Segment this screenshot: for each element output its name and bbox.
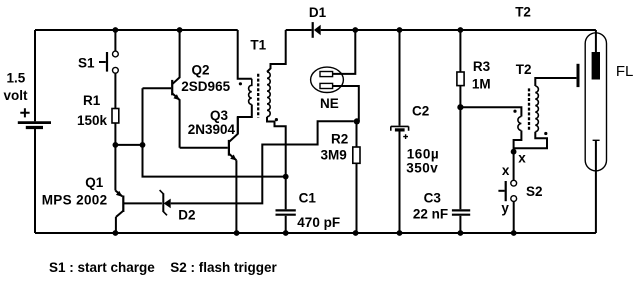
svg-text:T2: T2: [515, 4, 531, 19]
svg-text:D1: D1: [309, 5, 327, 20]
capacitor C1 470 pF: [276, 177, 341, 233]
svg-text:350v: 350v: [406, 161, 438, 176]
node junction Q2 collector top: [177, 27, 183, 33]
svg-text:R3: R3: [473, 59, 491, 74]
wire R3 node to T2 primary: [460, 107, 521, 113]
wire Q2 base vertical: [142, 88, 144, 145]
resistor R2 3M9: [321, 121, 361, 233]
svg-text:2SD965: 2SD965: [181, 79, 230, 94]
svg-text:NE: NE: [320, 96, 339, 111]
svg-text:Q3: Q3: [210, 108, 229, 123]
svg-text:470 pF: 470 pF: [297, 215, 340, 230]
node junction C2 bottom: [397, 230, 403, 236]
node junction Q3 emitter bottom: [234, 230, 240, 236]
svg-text:S1: S1: [78, 55, 95, 70]
zener diode D2: [160, 190, 196, 223]
diode D1: [309, 5, 596, 38]
svg-text:160µ: 160µ: [407, 146, 439, 161]
capacitor C3 22 nF: [413, 190, 470, 233]
svg-text:Q1: Q1: [85, 175, 104, 190]
node junction C3 bottom: [458, 230, 464, 236]
switch S2 flash trigger: [498, 152, 542, 233]
node junction C1 top: [283, 174, 289, 180]
svg-text:22 nF: 22 nF: [413, 207, 448, 222]
node junction R1 bottom: [113, 142, 119, 148]
transistor Q1 MPS 2002: [42, 145, 162, 233]
svg-text:FL: FL: [616, 63, 634, 80]
svg-text:3M9: 3M9: [321, 148, 347, 163]
svg-text:1M: 1M: [472, 77, 491, 92]
node junction NE top: [352, 27, 358, 33]
wire top rail left: [35, 29, 238, 31]
svg-text:S1 : start charge: S1 : start charge: [49, 260, 155, 275]
transistor Q2 2SD965: [143, 30, 231, 148]
switch S1 start charge: [78, 30, 118, 109]
trigger electrode: [577, 64, 580, 87]
node junction R2 bottom: [353, 230, 359, 236]
neon lamp NE: [311, 30, 359, 121]
transformer T2 core: [528, 88, 530, 130]
svg-text:x: x: [502, 163, 510, 178]
wire bottom rail: [35, 232, 596, 234]
battery B1 1.5 volt: [4, 30, 52, 233]
svg-text:C3: C3: [424, 190, 442, 205]
svg-text:Q2: Q2: [192, 63, 210, 78]
resistor R3 1M: [457, 30, 491, 209]
node junction S1 top: [113, 27, 119, 33]
wire node to C1 top: [143, 145, 286, 177]
node junction C1 bottom: [283, 230, 289, 236]
svg-text:C2: C2: [412, 103, 429, 118]
wire D2 to feedback node: [171, 121, 354, 203]
node junction R2 top: [354, 118, 360, 124]
svg-text:2N3904: 2N3904: [188, 122, 236, 137]
node junction Q2 base column: [140, 142, 146, 148]
svg-text:MPS 2002: MPS 2002: [42, 192, 108, 207]
node junction Q1 emitter bottom: [113, 230, 119, 236]
transformer T1 primary winding: [238, 30, 267, 134]
transformer T2 primary winding: [513, 62, 531, 153]
resistor R1 150k: [77, 93, 119, 143]
svg-text:C1: C1: [299, 191, 317, 206]
svg-text:D2: D2: [178, 208, 195, 223]
svg-text:volt: volt: [4, 88, 29, 103]
svg-text:T1: T1: [250, 37, 266, 52]
svg-text:R1: R1: [83, 93, 101, 108]
svg-text:1.5: 1.5: [7, 71, 26, 86]
node junction T2 primary top: [457, 104, 463, 110]
svg-text:y: y: [501, 200, 509, 215]
svg-text:R2: R2: [331, 132, 348, 147]
node junction R3 top: [458, 27, 464, 33]
node junction C2 top: [397, 27, 403, 33]
svg-text:T2: T2: [516, 62, 532, 77]
svg-text:150k: 150k: [77, 113, 108, 128]
svg-text:x: x: [518, 150, 526, 165]
capacitor C2 160u 350v: [391, 30, 439, 233]
node junction S2 x: [511, 149, 517, 155]
flash tube FL: [585, 30, 633, 233]
wire R1 bottom to Q2 base node: [115, 144, 142, 146]
svg-text:S2 : flash trigger: S2 : flash trigger: [170, 260, 277, 275]
transformer T1 secondary winding: [267, 30, 286, 177]
transistor Q3 2N3904: [180, 108, 238, 233]
transformer T2 secondary winding: [514, 78, 577, 148]
svg-text:S2: S2: [526, 184, 543, 199]
wire top rail T1 to D1: [286, 29, 312, 31]
transformer T1 core: [257, 74, 259, 118]
node junction S2 bottom: [511, 230, 517, 236]
